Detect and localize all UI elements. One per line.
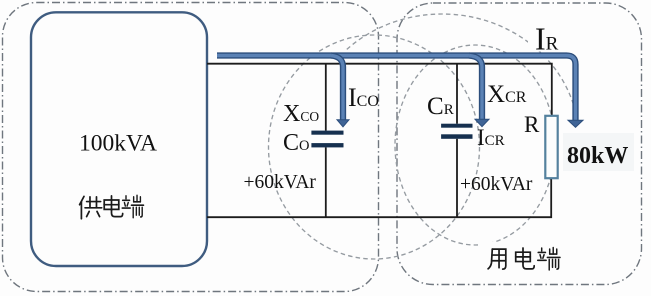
svg-text:ICO: ICO — [348, 83, 379, 112]
svg-text:R: R — [524, 112, 540, 137]
svg-text:+60kVAr: +60kVAr — [460, 174, 533, 195]
svg-text:XCO: XCO — [283, 101, 319, 127]
svg-text:XCR: XCR — [487, 81, 527, 108]
svg-text:80kW: 80kW — [567, 143, 628, 169]
svg-text:100kVA: 100kVA — [79, 131, 157, 157]
svg-text:+60kVAr: +60kVAr — [244, 172, 317, 193]
svg-text:CR: CR — [427, 93, 454, 120]
svg-text:CO: CO — [283, 130, 310, 156]
svg-text:ICR: ICR — [477, 125, 505, 150]
